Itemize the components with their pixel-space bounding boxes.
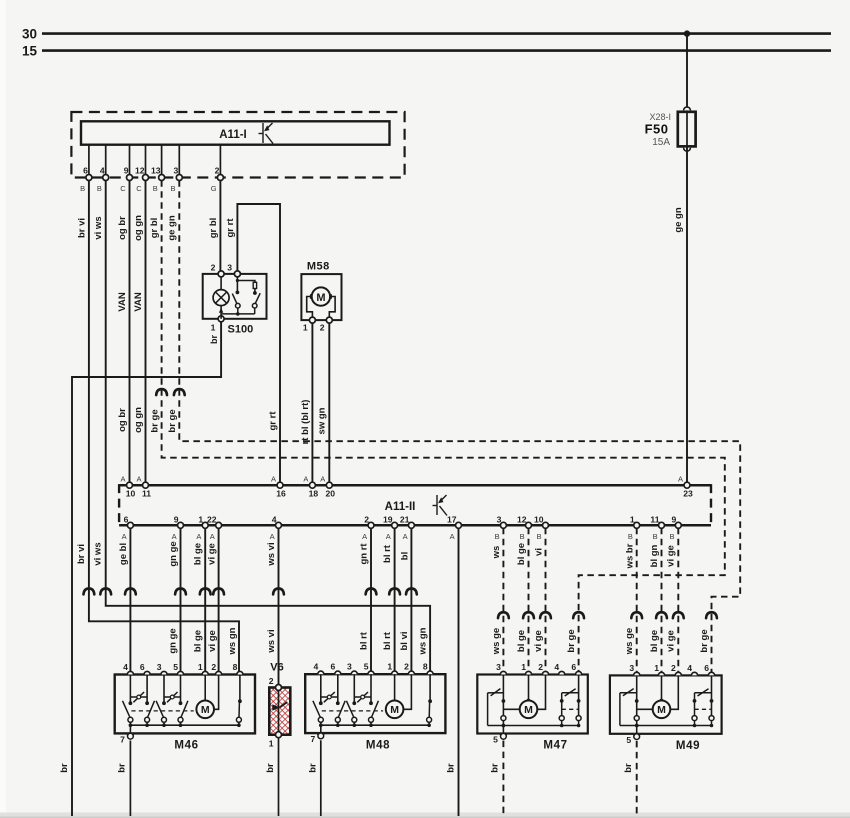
svg-text:vi ge: vi ge: [666, 545, 677, 567]
svg-text:17: 17: [447, 514, 457, 524]
svg-text:11: 11: [650, 514, 659, 524]
svg-text:4: 4: [554, 662, 559, 672]
svg-text:gr bl: gr bl: [208, 218, 219, 239]
svg-text:1: 1: [387, 662, 392, 672]
svg-text:gn rt: gn rt: [358, 543, 369, 565]
svg-text:bl rt: bl rt: [382, 544, 393, 563]
svg-text:2: 2: [320, 323, 325, 333]
svg-text:A11-II: A11-II: [385, 501, 416, 513]
svg-text:1: 1: [303, 323, 308, 333]
svg-text:br: br: [116, 763, 127, 773]
wire br : V6 pin 1 to bottom: [265, 738, 279, 817]
svg-text:M46: M46: [174, 740, 198, 752]
wire gr rt : S100 pin 3 loop to A11-II pin 16: [225, 204, 280, 485]
svg-text:br: br: [59, 763, 70, 773]
pin 6 (B) of A11-I: [80, 145, 92, 193]
svg-text:ge gn: ge gn: [167, 215, 178, 241]
svg-text:br: br: [446, 763, 457, 773]
svg-text:16: 16: [276, 489, 286, 499]
svg-text:bl gn: bl gn: [649, 544, 660, 567]
svg-text:B: B: [628, 532, 633, 541]
pin 13 (B) of A11-I: [151, 145, 165, 193]
wire br : S100 pin 1 to ground run: [59, 322, 221, 816]
wire ge bl : A11-II pin 6 to M46 pin 4: [118, 528, 136, 675]
svg-text:bl ge: bl ge: [193, 543, 204, 565]
wire br : M46 pin 7 to bottom: [116, 741, 130, 817]
svg-text:22: 22: [207, 514, 217, 524]
svg-text:bl rt: bl rt: [382, 631, 393, 650]
pin 1 (A) of A11-II bottom: [196, 514, 208, 541]
svg-text:2: 2: [404, 662, 409, 672]
wire br : M49 pin 5 to bottom (dashed): [623, 741, 637, 816]
svg-text:A: A: [136, 475, 141, 484]
svg-text:ws ge: ws ge: [624, 628, 635, 655]
window motor unit M49: [610, 663, 722, 752]
svg-text:6: 6: [571, 662, 576, 672]
svg-text:M49: M49: [676, 740, 700, 752]
svg-text:br: br: [265, 763, 276, 773]
control unit A11-II: [119, 484, 711, 526]
wire from bus 30 to fuse F50: [686, 34, 688, 112]
pin 6 (A) of A11-II bottom: [122, 514, 134, 541]
svg-text:ws br: ws br: [624, 543, 635, 569]
svg-text:A: A: [196, 532, 201, 541]
svg-text:V6: V6: [270, 661, 283, 673]
wire bl ge : A11-II pin 12 to M47 pin 1 (dashed): [516, 528, 534, 675]
svg-text:B: B: [669, 532, 674, 541]
svg-text:M: M: [390, 704, 399, 716]
wire bl gn / bl ge : A11-II pin 11 to M49 pin 1 (dashed): [649, 528, 667, 676]
svg-text:vi ge: vi ge: [207, 543, 218, 565]
pin 1 (B) of A11-II bottom: [628, 514, 640, 541]
svg-text:3: 3: [174, 165, 179, 175]
svg-text:3: 3: [629, 663, 634, 673]
svg-text:A: A: [122, 532, 127, 541]
svg-text:3: 3: [347, 662, 352, 672]
control unit A11-I: [71, 112, 404, 178]
window motor unit M46: [115, 662, 255, 752]
pin 10 (A) of A11-II top: [120, 475, 135, 499]
svg-text:gr rt: gr rt: [225, 218, 236, 238]
pin 22 (A) of A11-II bottom: [207, 514, 222, 541]
svg-text:bl ge: bl ge: [193, 630, 204, 652]
svg-text:F50: F50: [645, 121, 669, 136]
svg-text:VAN: VAN: [133, 292, 144, 311]
wire ws vi : A11-II pin 4 to diode V6 pin 2: [266, 528, 284, 688]
wire ws br / ws ge : A11-II pin 1 to M49 pin 3 (dashed): [624, 528, 642, 676]
svg-text:B: B: [495, 532, 500, 541]
wire bl ge : A11-II pin 1 to M46 pin 1: [193, 528, 211, 675]
svg-text:7: 7: [120, 734, 125, 744]
pin 4 (A) of A11-II bottom: [270, 514, 282, 541]
svg-text:2: 2: [211, 662, 216, 672]
pin 9 (C) of A11-I: [120, 145, 132, 193]
diode V6: [269, 661, 291, 748]
svg-text:11: 11: [142, 489, 151, 499]
svg-text:gn ge: gn ge: [168, 628, 179, 653]
svg-text:ws gn: ws gn: [227, 627, 238, 655]
svg-text:A: A: [303, 475, 308, 484]
svg-text:S100: S100: [228, 324, 254, 336]
svg-text:4: 4: [687, 663, 692, 673]
pin 2 (G) of A11-I: [211, 145, 224, 193]
bottom page edge band: [0, 813, 850, 818]
svg-text:br vi: br vi: [76, 218, 87, 238]
pin 11 (B) of A11-II bottom: [650, 514, 664, 541]
pin 3 (B) of A11-II bottom: [495, 514, 507, 541]
svg-text:VAN: VAN: [117, 292, 128, 311]
svg-text:vi ge: vi ge: [207, 630, 218, 652]
pin 2 (A) of A11-II bottom: [362, 514, 374, 541]
svg-text:br: br: [209, 335, 219, 344]
svg-text:A11-I: A11-I: [219, 129, 247, 141]
wire br : M48 pin 7 to bottom: [308, 740, 321, 816]
svg-text:A: A: [320, 475, 325, 484]
wire ge gn : fuse F50 to A11-II pin 23: [673, 147, 687, 485]
pin 20 (A) of A11-II top: [320, 475, 335, 499]
svg-text:B: B: [170, 184, 175, 193]
svg-text:vi ge: vi ge: [665, 630, 676, 652]
svg-text:4: 4: [123, 662, 128, 672]
svg-text:M48: M48: [366, 739, 390, 751]
svg-text:21: 21: [400, 514, 410, 524]
svg-text:1: 1: [198, 662, 203, 672]
svg-text:br vi: br vi: [76, 544, 87, 564]
svg-text:5: 5: [364, 662, 369, 672]
svg-text:5: 5: [173, 662, 178, 672]
pin 17 (A) of A11-II bottom: [447, 514, 462, 541]
wire sw gn : M58 pin 2 to A11-II pin 20: [317, 323, 330, 485]
wire br : A11-II pin 17 to bottom: [446, 528, 459, 816]
svg-text:ge bl: ge bl: [118, 543, 129, 565]
svg-text:G: G: [211, 184, 217, 193]
svg-text:ws vi: ws vi: [266, 542, 277, 566]
svg-text:8: 8: [423, 662, 428, 672]
svg-text:vi ws: vi ws: [93, 216, 104, 239]
window motor unit M47: [477, 662, 588, 752]
svg-text:gr rt: gr rt: [267, 411, 278, 431]
pin 9 (A) of A11-II bottom: [172, 514, 184, 541]
svg-text:ws: ws: [491, 546, 502, 560]
svg-text:9: 9: [124, 165, 129, 175]
svg-text:og gn: og gn: [133, 407, 144, 433]
svg-text:18: 18: [309, 489, 319, 499]
svg-text:bl ge: bl ge: [516, 543, 527, 565]
svg-text:23: 23: [683, 489, 693, 499]
pin 11 (A) of A11-II top: [136, 475, 151, 499]
svg-text:15: 15: [22, 44, 38, 59]
svg-text:2: 2: [215, 165, 220, 175]
svg-text:13: 13: [151, 165, 161, 175]
bus 30: [22, 27, 831, 42]
svg-text:4: 4: [314, 662, 319, 672]
svg-text:19: 19: [383, 514, 393, 524]
svg-text:br ge: br ge: [566, 629, 577, 652]
wire ge gn / br ge : A11-I pin 3 to M49 pin 6 (dashed): [167, 180, 741, 675]
svg-text:3: 3: [496, 662, 501, 672]
svg-text:br ge: br ge: [699, 629, 710, 652]
svg-text:og br: og br: [117, 216, 128, 240]
svg-text:C: C: [136, 184, 142, 193]
svg-text:A: A: [270, 532, 275, 541]
svg-text:A: A: [450, 532, 455, 541]
svg-text:M58: M58: [307, 260, 330, 272]
wire vi ge : A11-II pin 22 to M46 pin 2: [207, 528, 224, 675]
wire rt bl (bl rt) : M58 pin 1 to A11-II pin 18: [300, 323, 312, 485]
svg-text:2: 2: [538, 662, 543, 672]
svg-text:br ge: br ge: [167, 409, 178, 432]
svg-text:br: br: [308, 763, 319, 773]
svg-text:1: 1: [654, 663, 659, 673]
svg-text:vi: vi: [534, 548, 545, 556]
svg-text:3: 3: [157, 662, 162, 672]
svg-text:A: A: [386, 532, 391, 541]
svg-text:M: M: [657, 704, 666, 716]
svg-text:B: B: [80, 184, 85, 193]
svg-text:A: A: [210, 532, 215, 541]
svg-text:M47: M47: [543, 740, 567, 752]
svg-text:A: A: [120, 475, 125, 484]
svg-text:ws gn: ws gn: [418, 627, 429, 655]
svg-text:15A: 15A: [652, 137, 670, 148]
svg-text:br ge: br ge: [149, 409, 160, 432]
pin 19 (A) of A11-II bottom: [383, 514, 398, 541]
svg-text:20: 20: [326, 489, 336, 499]
svg-text:ge gn: ge gn: [673, 207, 684, 233]
svg-text:rt bl (bl rt): rt bl (bl rt): [300, 400, 311, 445]
pin 16 (A) of A11-II top: [271, 475, 286, 499]
svg-text:2: 2: [671, 663, 676, 673]
svg-text:sw gn: sw gn: [317, 407, 328, 434]
svg-text:5: 5: [626, 735, 631, 745]
svg-text:bl rt: bl rt: [358, 631, 369, 650]
bus 15: [22, 44, 831, 59]
motor M58: [301, 260, 341, 332]
pin 21 (A) of A11-II bottom: [400, 514, 415, 541]
wire og br (VAN) : A11-I pin 9 to A11-II pin 10: [117, 180, 130, 485]
svg-text:br: br: [623, 763, 634, 773]
svg-text:1: 1: [211, 323, 216, 333]
svg-text:10: 10: [126, 489, 136, 499]
svg-text:M: M: [316, 292, 325, 304]
svg-text:30: 30: [22, 27, 37, 42]
svg-text:3: 3: [227, 262, 232, 272]
pin 9 (B) of A11-II bottom: [669, 514, 681, 541]
svg-text:A: A: [678, 475, 683, 484]
svg-text:M: M: [201, 704, 210, 716]
wire vi / vi ge : A11-II pin 10 to M47 pin 2 (dashed): [533, 528, 551, 675]
switch S100 (illuminated): [203, 262, 267, 335]
svg-text:bl ge: bl ge: [516, 630, 527, 652]
svg-text:6: 6: [140, 662, 145, 672]
svg-text:8: 8: [233, 662, 238, 672]
svg-text:B: B: [97, 184, 102, 193]
wire ws / ws ge : A11-II pin 3 to M47 pin 3 (dashed): [491, 528, 509, 675]
svg-text:6: 6: [704, 663, 709, 673]
wire gn ge : A11-II pin 9 to M46 pin 5: [168, 528, 186, 675]
svg-text:bl ge: bl ge: [649, 630, 660, 652]
svg-text:M: M: [524, 704, 533, 716]
wire og gn (VAN) : A11-I pin 12 to A11-II pin 11: [133, 180, 146, 485]
fuse F50 (X28-I, 15A): [645, 107, 696, 151]
pin 23 (A) of A11-II top: [678, 475, 693, 499]
pin 12 (C) of A11-I: [135, 145, 149, 193]
junction on bus 30: [684, 30, 690, 36]
svg-text:4: 4: [100, 165, 105, 175]
wire br : M47 pin 5 to bottom (dashed): [490, 741, 504, 816]
wire gn rt / bl rt : A11-II pin 2 to M48 pin 5: [358, 528, 376, 674]
svg-text:6: 6: [331, 662, 336, 672]
svg-text:og gn: og gn: [133, 215, 144, 241]
svg-text:A: A: [271, 475, 276, 484]
wire bl rt : A11-II pin 19 to M48 pin 1: [382, 528, 400, 674]
svg-text:gn ge: gn ge: [168, 541, 179, 566]
svg-text:A: A: [403, 532, 408, 541]
svg-text:ws vi: ws vi: [266, 629, 277, 653]
wire gr bl : A11-I pin 2 to S100 pin 2: [208, 180, 220, 271]
svg-text:B: B: [520, 532, 525, 541]
svg-text:B: B: [653, 532, 658, 541]
svg-text:12: 12: [135, 165, 145, 175]
svg-text:bl: bl: [399, 552, 410, 560]
wire bl / bl vi : A11-II pin 21 to M48 pin 2: [399, 528, 417, 674]
pin 3 (B) of A11-I: [170, 145, 182, 193]
pin 4 (B) of A11-I: [97, 145, 109, 193]
svg-text:1: 1: [269, 739, 274, 749]
wire gr bl / br ge : A11-I pin 13 to M47 pin 6 (dashed): [149, 180, 725, 674]
svg-text:gr bl: gr bl: [149, 218, 160, 239]
pin 10 (B) of A11-II bottom: [534, 514, 549, 541]
svg-text:ws ge: ws ge: [491, 628, 502, 655]
window motor unit M48: [305, 662, 445, 752]
svg-text:B: B: [537, 532, 542, 541]
svg-text:bl vi: bl vi: [399, 631, 410, 650]
svg-text:br: br: [490, 763, 501, 773]
svg-text:A: A: [172, 532, 177, 541]
wire br vi : A11-I pin 6 to M46 pin 8: [76, 180, 239, 674]
svg-text:A: A: [362, 532, 367, 541]
svg-text:vi ws: vi ws: [92, 542, 103, 565]
svg-text:5: 5: [493, 735, 498, 745]
svg-text:1: 1: [521, 662, 526, 672]
pin 12 (B) of A11-II bottom: [517, 514, 532, 541]
svg-text:og br: og br: [117, 408, 128, 432]
svg-text:C: C: [120, 184, 126, 193]
svg-text:6: 6: [83, 165, 88, 175]
svg-text:2: 2: [269, 676, 274, 686]
svg-text:12: 12: [517, 514, 527, 524]
svg-text:7: 7: [311, 734, 316, 744]
wire vi ge : A11-II pin 9 to M49 pin 2 (dashed): [665, 528, 683, 676]
wire vi ws : A11-I pin 4 to M48 pin 8: [92, 180, 430, 674]
svg-text:2: 2: [211, 262, 216, 272]
svg-text:vi ge: vi ge: [533, 630, 544, 652]
svg-text:10: 10: [534, 514, 544, 524]
pin 18 (A) of A11-II top: [303, 475, 318, 499]
svg-text:B: B: [153, 184, 158, 193]
